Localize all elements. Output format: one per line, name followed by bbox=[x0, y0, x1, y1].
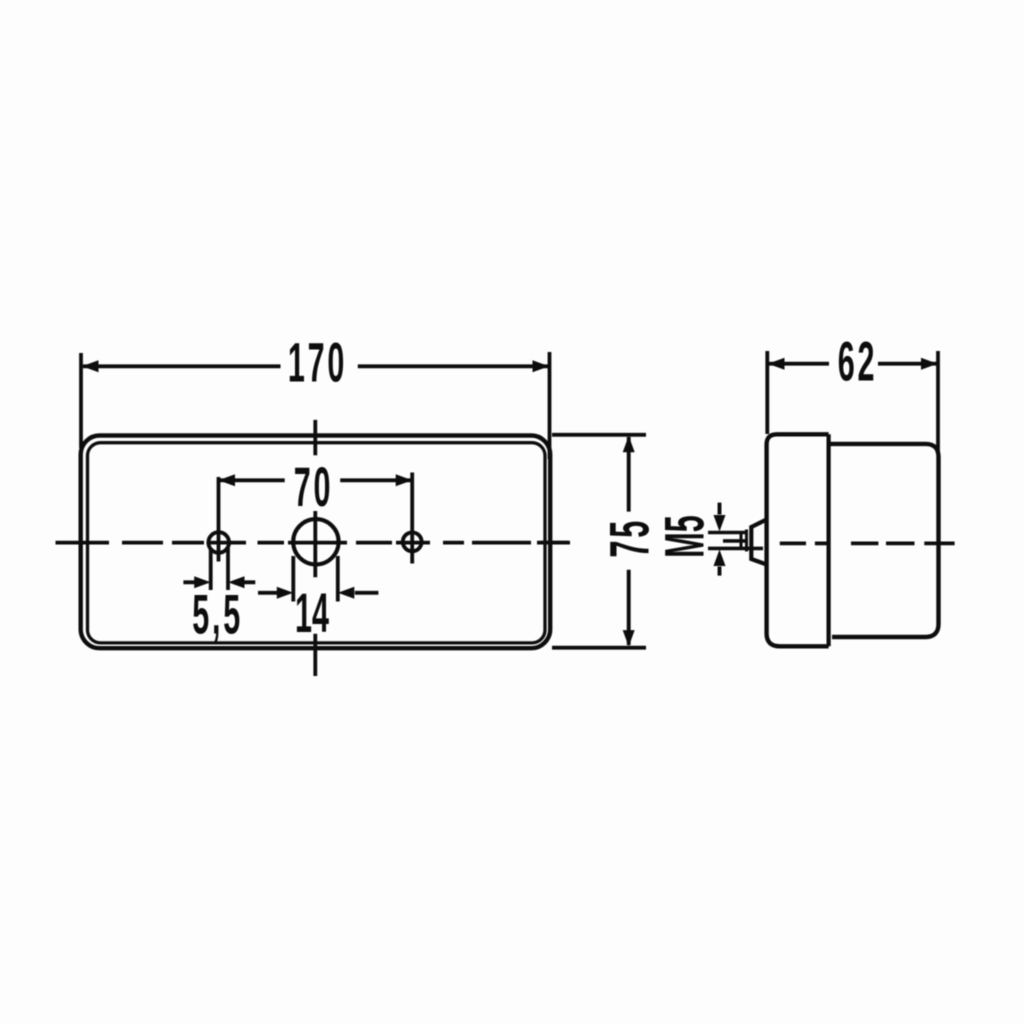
side view lens outline bbox=[767, 434, 829, 646]
dimension 75 line bbox=[627, 437, 631, 512]
side view dashed centerline bbox=[780, 542, 955, 546]
front view outer housing rounded rectangle bbox=[81, 436, 551, 649]
right mounting hole bbox=[403, 532, 422, 551]
dimension 70 line bbox=[219, 478, 285, 482]
center hole 14 bbox=[293, 519, 338, 564]
dimension 14 extension lines bbox=[291, 556, 295, 602]
dimension 170 line bbox=[83, 364, 281, 368]
dimension 170 arrowheads bbox=[82, 360, 99, 372]
dimension 14 lines and arrows bbox=[258, 591, 277, 595]
dimension 62 arrowheads bbox=[768, 358, 785, 370]
front view inner lens rim rounded rectangle bbox=[88, 443, 546, 643]
dimension 170 extension lines bbox=[79, 353, 83, 448]
dimension 75 extension lines bbox=[552, 433, 646, 437]
dimension 5,5 extension lines bbox=[209, 548, 213, 590]
svg-text:62: 62 bbox=[838, 331, 877, 393]
dimension 70 extension lines through holes bbox=[217, 477, 221, 562]
dimension 62 line bbox=[769, 362, 829, 366]
dimension 62 extension lines bbox=[765, 351, 769, 434]
svg-text:75: 75 bbox=[599, 518, 661, 557]
side view body outline bbox=[829, 444, 939, 637]
centerline tick right of front view bbox=[540, 541, 568, 545]
svg-text:5,5: 5,5 bbox=[192, 584, 243, 646]
center hole vertical centerline bbox=[313, 511, 317, 577]
stud mounting boss bbox=[751, 520, 766, 565]
left mounting hole 5.5 bbox=[208, 532, 229, 553]
dimension 75 arrowheads bbox=[623, 436, 635, 453]
svg-text:170: 170 bbox=[288, 332, 347, 394]
vertical centerline of front view bbox=[313, 420, 317, 676]
horizontal centerline of front view bbox=[56, 541, 571, 545]
M5 dimension line and arrows bbox=[718, 503, 722, 515]
side view joint line between lens and body bbox=[826, 434, 830, 646]
svg-text:70: 70 bbox=[294, 456, 333, 518]
svg-text:14: 14 bbox=[295, 583, 329, 645]
dimension 5,5 lines and arrows bbox=[183, 580, 194, 584]
dimension 70 arrowheads bbox=[219, 474, 236, 486]
svg-text:M5: M5 bbox=[654, 515, 716, 557]
M5 threaded stud bbox=[708, 531, 747, 535]
